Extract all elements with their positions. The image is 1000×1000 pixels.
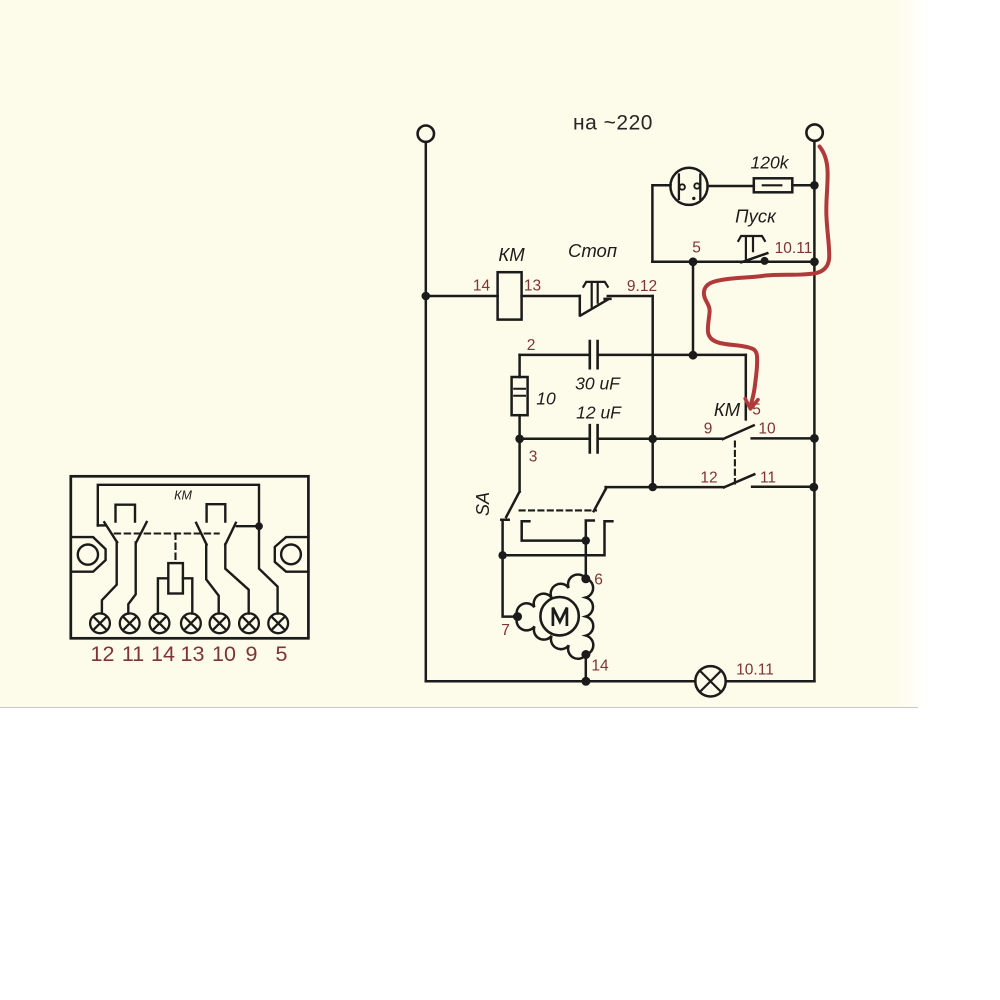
wire 5 node drop <box>692 262 695 356</box>
wire neon branch riser <box>652 185 670 261</box>
block connector blade9 to frame <box>237 525 259 527</box>
node pusk contact <box>761 257 769 265</box>
wire bottom rail <box>426 680 815 683</box>
svg-text:10.11: 10.11 <box>775 240 813 257</box>
screw terminal 9 <box>239 613 259 633</box>
screw terminal 14 <box>150 613 170 633</box>
switch SA right pole <box>586 487 606 580</box>
wire resistor10 branch <box>518 355 521 377</box>
node 10.11 right top <box>810 257 819 266</box>
svg-text:10: 10 <box>212 642 236 666</box>
svg-text:КМ: КМ <box>498 244 525 265</box>
svg-text:Пуск: Пуск <box>735 206 777 227</box>
block lead to 10 <box>206 544 219 613</box>
red annotation wire <box>704 147 829 409</box>
node resistor right <box>810 181 819 190</box>
lamp HL 10.11 <box>695 666 725 696</box>
neon lamp <box>670 168 707 205</box>
screw terminal 10 <box>210 613 230 633</box>
wire capacitor row 2 <box>520 354 746 357</box>
KM contact 9-10 fixed pin 5 <box>745 355 748 420</box>
screw terminal 13 <box>181 613 201 633</box>
svg-text:10: 10 <box>536 389 556 409</box>
svg-text:2: 2 <box>527 337 536 354</box>
svg-text:12 uF: 12 uF <box>576 403 622 423</box>
node crossover a <box>582 536 590 544</box>
svg-text:14: 14 <box>591 658 609 675</box>
KM contact 9-10 blade <box>723 425 754 439</box>
svg-text:10: 10 <box>758 421 776 438</box>
svg-text:3: 3 <box>529 449 538 466</box>
svg-text:13: 13 <box>524 278 541 295</box>
node motor 7 <box>513 612 522 621</box>
block dashed coil link <box>174 534 176 563</box>
wire resistor to right bus <box>792 184 814 187</box>
SA right alternate contact crossover <box>503 521 613 555</box>
svg-text:9: 9 <box>704 421 713 438</box>
wire neon to resistor <box>708 185 754 188</box>
wire KM coil row <box>426 295 580 298</box>
pushbutton Stop (NC) <box>580 296 611 316</box>
screw terminal 5 <box>268 613 288 633</box>
svg-text:7: 7 <box>501 622 510 639</box>
block frame tick <box>98 524 105 526</box>
block blade 12 <box>104 522 117 542</box>
node crossover b <box>498 551 506 559</box>
svg-text:5: 5 <box>692 240 701 257</box>
block coil yoke <box>158 578 192 613</box>
block contact staple right <box>207 504 226 521</box>
svg-text:10.11: 10.11 <box>736 662 774 679</box>
svg-text:14: 14 <box>473 278 491 295</box>
block contact staple left <box>116 505 136 522</box>
svg-text:КМ: КМ <box>714 399 741 420</box>
node 11 right bus <box>809 483 818 492</box>
terminal right (~220 input) <box>806 124 822 140</box>
wire vertical 9.12 drop <box>651 296 654 487</box>
block blade 9 <box>225 523 236 545</box>
svg-text:9.12: 9.12 <box>627 278 657 295</box>
terminal block outline <box>71 476 309 638</box>
pushbutton Pusk (NO) blade <box>741 253 767 262</box>
node motor 6 <box>581 574 590 583</box>
svg-text:Стоп: Стоп <box>568 240 617 261</box>
svg-text:6: 6 <box>594 572 603 589</box>
node row12-11 <box>648 483 657 492</box>
mechanical link dashed <box>734 442 736 484</box>
wire Pusk row (5 to 10.11) <box>652 261 814 264</box>
svg-text:9: 9 <box>246 642 258 666</box>
wire capacitor row 12uF <box>520 438 723 441</box>
svg-text:КМ: КМ <box>174 489 192 503</box>
svg-text:11: 11 <box>760 470 776 487</box>
block coil rect <box>168 563 183 593</box>
motor M stator winding <box>517 574 594 658</box>
block lead to 11 <box>128 543 135 614</box>
svg-text:12: 12 <box>91 642 115 666</box>
motor M rotor circle <box>540 597 578 635</box>
svg-text:на ~220: на ~220 <box>573 112 653 135</box>
node dots <box>422 181 819 686</box>
wire motor 14 drop <box>585 655 588 682</box>
block mount ear left <box>71 537 106 572</box>
node 5 top <box>689 257 698 266</box>
node bottom rail <box>581 677 590 686</box>
wire 10 to right bus <box>752 437 815 440</box>
relay coil KM <box>498 272 522 319</box>
SA coupling dashed <box>520 509 596 511</box>
svg-text:12: 12 <box>700 470 717 487</box>
block mount ear right <box>275 537 309 572</box>
switch SA left pole <box>501 439 519 617</box>
block lead to 9 <box>225 544 248 613</box>
terminal left (~220 input) <box>418 126 434 142</box>
node 10 right bus <box>810 434 819 443</box>
wire right vertical bus <box>813 141 816 681</box>
screw terminal 12 <box>90 613 110 633</box>
svg-text:SA: SA <box>473 492 493 516</box>
KM contact 12-11 blade <box>724 474 754 487</box>
red arrowhead <box>745 399 758 409</box>
block blade 11 <box>136 522 147 543</box>
block inner frame to pin 5 <box>98 485 278 614</box>
block node dot <box>255 522 263 530</box>
svg-text:30 uF: 30 uF <box>575 374 621 394</box>
capacitor 30uF <box>590 341 598 368</box>
svg-text:13: 13 <box>181 642 205 666</box>
wire left vertical bus <box>425 142 428 681</box>
svg-text:120k: 120k <box>751 153 790 173</box>
block dashed bar <box>115 532 219 534</box>
capacitor 12uF <box>590 425 598 452</box>
node 12uF right <box>648 435 657 444</box>
wire row 12-11 <box>606 485 814 488</box>
resistor 10 <box>512 377 528 415</box>
block lead to 12 <box>102 542 117 614</box>
wire Stop to node 9.12 <box>608 295 653 298</box>
screw terminal 11 <box>120 613 140 633</box>
block blade 10 <box>196 523 207 545</box>
svg-text:14: 14 <box>151 642 175 666</box>
svg-text:5: 5 <box>276 642 288 666</box>
SA left alternate contact crossover <box>522 521 586 540</box>
node cap row 2 <box>689 351 698 360</box>
node motor 14 <box>581 650 590 659</box>
label M motor <box>553 608 567 626</box>
resistor 120k <box>754 178 793 192</box>
svg-text:11: 11 <box>122 642 144 666</box>
node KM row left <box>422 292 431 301</box>
node 3 <box>515 435 524 444</box>
